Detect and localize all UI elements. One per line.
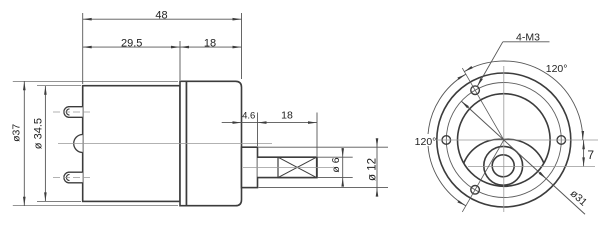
inner case circle [458,94,551,187]
dimension line 7 [583,140,585,166]
centerline output shaft axis [243,166,333,168]
mounting hole M3 240deg [471,186,480,195]
extension line shaft end [316,113,318,157]
extension line left (motor front face) [82,13,84,84]
mounting hole M3 right 0deg [557,136,566,145]
angle dimension arc 120deg left [428,74,466,206]
angle text 120deg left [414,134,436,146]
output shaft (d6) [258,157,318,177]
terminal pin 1 [64,107,83,118]
extension line boss face [257,113,259,147]
leader line 4-M3 [503,41,550,43]
dimension line d12 [376,139,378,197]
dimension line 48 [83,18,242,20]
extension line shaft bottom to d6 dim [317,177,353,179]
svg-text:18: 18 [281,110,293,122]
centerline main motor axis [58,143,272,145]
svg-text:4.6: 4.6 [242,110,255,121]
extension line d37 bottom [13,205,178,207]
centerline terminal pin 1 [53,111,90,113]
svg-text:ø37: ø37 [11,124,23,142]
svg-text:18: 18 [204,37,216,49]
svg-text:29.5: 29.5 [121,37,142,49]
extension line shaft top to d6 dim [317,156,353,158]
extension line motor/gearbox interface [179,41,181,80]
knurl box on shaft [278,157,317,177]
terminal pin 2 [64,172,83,183]
dimension line 4.6 and 18 [222,122,317,124]
svg-text:ø 34.5: ø 34.5 [33,118,45,149]
dimension line d6 [342,148,344,187]
dimension line 29.5 [83,46,180,48]
extension line right (gearbox rear face) [241,13,243,79]
extension line d34.5 bottom [37,200,81,202]
dimension line d34.5 [44,86,46,202]
centerline vertical (face view) [503,66,505,212]
dimension line 18 top [180,46,242,48]
gearbox housing [187,81,242,205]
angle dimension arc 120deg top [464,61,583,140]
bolt circle d31 [446,83,561,198]
mounting hole M3 120deg [471,86,480,95]
crescent rib left arc [464,139,504,163]
radial centerline to hole at 120deg [462,68,504,140]
svg-text:ø 6: ø 6 [330,157,342,172]
output shaft boss circle (face view) [484,146,523,185]
outer circle gearbox d37 face [437,73,571,207]
leader line d31 (bolt circle diameter) [461,101,585,214]
svg-text:7: 7 [587,148,594,162]
crescent rib right arc [504,139,544,163]
motor can body (side view) [83,86,180,202]
svg-text:120°: 120° [546,63,568,75]
output shaft boss (d12) [242,147,258,187]
mounting hole M3 left 180deg [442,136,451,145]
output shaft circle (face view) [492,155,514,177]
centerline terminal pin 2 [53,177,90,179]
svg-text:ø 12: ø 12 [367,158,379,181]
extension line boss top to d12 dim [259,146,389,148]
gearbox front plate [180,81,187,205]
extension line d37 top [13,80,178,82]
radial centerline to hole at 240deg [462,140,504,212]
centerline horizontal through shaft center [468,165,595,167]
svg-text:120°: 120° [415,136,437,148]
extension line boss bottom to d12 dim [259,187,389,189]
svg-text:48: 48 [155,10,167,22]
dimension line d37 [23,81,25,205]
centerline horizontal (face view) [431,139,598,141]
bearing boss bump on motor end cap [74,135,83,153]
extension line d34.5 top [37,85,81,87]
